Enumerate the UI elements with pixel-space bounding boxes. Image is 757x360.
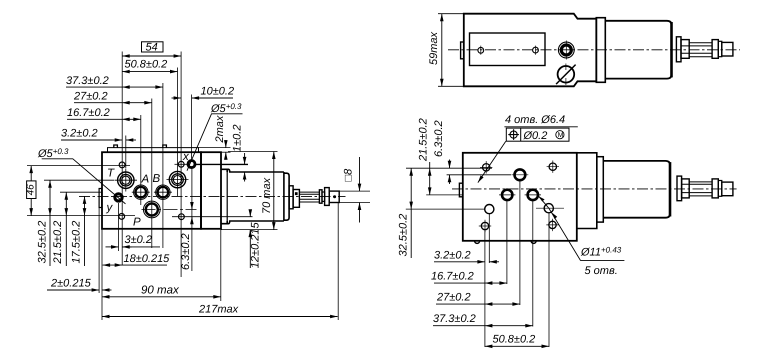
dimension 6.3±0.2 (bottom view, outside arrows)	[433, 120, 450, 184]
collar (bottom view)	[718, 181, 722, 197]
mounting flange of spring housing	[201, 152, 221, 229]
svg-text:27±0.2: 27±0.2	[436, 292, 471, 304]
dimension 2±0.215	[47, 278, 112, 291]
spring housing cylinder outline	[221, 169, 284, 223]
hex block pin (dark square)	[295, 192, 298, 195]
svg-text:50.8±0.2: 50.8±0.2	[493, 334, 536, 346]
dimension 217max	[102, 304, 338, 317]
extension column T x=125.8	[125, 136, 127, 169]
svg-text:Ø0.2: Ø0.2	[523, 130, 548, 142]
lock collar	[319, 190, 322, 203]
dimension square-8 (knob)	[339, 157, 370, 223]
hex flats	[682, 184, 690, 192]
svg-text:6.3±0.2: 6.3±0.2	[433, 120, 445, 157]
dimension 6.3±0.2	[180, 202, 192, 270]
threaded adjusting rod	[299, 192, 319, 202]
port x plug (dark ring, top view)	[561, 45, 571, 55]
adjuster hex (top view)	[681, 40, 689, 59]
square end knob	[329, 191, 339, 202]
dimension 3.2±0.2 (outside arrows)	[61, 128, 136, 140]
nut (bottom view)	[712, 179, 718, 198]
port labels	[106, 151, 191, 229]
screw crosshair dashes	[481, 46, 536, 55]
port T crosshair	[115, 169, 138, 192]
dimension 37.3±0.2	[66, 75, 163, 87]
svg-text:37.3±0.2: 37.3±0.2	[433, 313, 476, 325]
label Ø5+0.3 (left, port y)	[37, 147, 126, 204]
svg-text:90 max: 90 max	[141, 285, 180, 297]
small hole bottom-left	[119, 214, 125, 220]
left side tab	[461, 42, 464, 59]
svg-text:32.5±0.2: 32.5±0.2	[37, 221, 49, 264]
svg-text:3±0.2: 3±0.2	[125, 234, 152, 246]
hole T'	[485, 205, 494, 214]
port x (small dark ring)	[188, 161, 195, 168]
leader Ø11 through holes	[539, 196, 581, 260]
svg-text:3.2±0.2: 3.2±0.2	[434, 250, 471, 262]
lock nut (top view)	[712, 40, 718, 59]
adjuster washer	[289, 186, 293, 209]
bottom-right hole extension line	[172, 216, 253, 218]
knob center dot	[333, 195, 336, 198]
right band	[577, 153, 597, 229]
svg-text:17.5±0.2: 17.5±0.2	[71, 221, 83, 264]
rod (bottom view)	[689, 182, 712, 196]
cylinder end cap	[284, 173, 289, 220]
left side plate tab	[99, 189, 102, 208]
svg-text:46: 46	[26, 184, 37, 196]
extension column X2 x=177.6	[177, 68, 179, 197]
left side tab (bottom view)	[459, 183, 462, 197]
centerline (bottom view)	[452, 188, 737, 190]
svg-text:27±0.2: 27±0.2	[73, 91, 108, 103]
extension column A x=140.4	[140, 115, 142, 205]
dimension 17.5±0.2	[71, 196, 85, 266]
dimension 12±0.215	[250, 210, 262, 269]
small hole left of port x	[178, 161, 184, 167]
hole bottom-right	[549, 221, 556, 228]
leader to 6.4 hole	[478, 141, 506, 182]
port P (thick ring)	[146, 203, 158, 215]
main horizontal centerline	[79, 195, 346, 197]
dimension 27±0.2 (bottom view)	[436, 292, 520, 305]
dimension 32.5±0.2 (bottom view)	[398, 168, 412, 258]
svg-text:P: P	[133, 217, 141, 229]
port B crosshair	[154, 191, 172, 193]
top gasket plate	[108, 148, 199, 153]
gasket top extension line	[199, 147, 231, 149]
plug vertical dash	[565, 64, 567, 86]
dimension 16.7±0.2 (bottom view)	[431, 271, 507, 284]
svg-text:2max: 2max	[214, 115, 226, 143]
body (mounting face view)	[463, 153, 577, 241]
centerline (top view)	[448, 49, 740, 51]
flange right edge extension down	[220, 229, 222, 301]
hole top-left	[483, 164, 490, 171]
left row extension: A/B row y=191.4	[60, 191, 102, 193]
cylinder right end thick edge (bottom view)	[669, 162, 672, 216]
dimension 70 max	[221, 152, 278, 230]
plug crosshair	[565, 41, 567, 60]
lock nut	[325, 188, 330, 206]
svg-text:2±0.215: 2±0.215	[50, 278, 92, 290]
port T (double ring)	[118, 172, 134, 188]
leader arrowheads	[539, 196, 545, 201]
dimension 1±0.2	[232, 125, 245, 182]
port P crosshair	[142, 209, 197, 211]
extension column B x=162.6	[162, 83, 164, 248]
slotted screw plug (circle with slash)	[558, 66, 575, 83]
dimension 59max	[428, 14, 464, 87]
nameplate screw left	[478, 47, 484, 53]
svg-text:10±0.2: 10±0.2	[201, 86, 235, 98]
knob end extension down	[337, 203, 339, 321]
svg-text:T: T	[107, 168, 115, 180]
dimension 18±0.215	[103, 253, 171, 265]
GD&T frame	[506, 128, 569, 142]
svg-text:18±0.215: 18±0.215	[124, 253, 171, 265]
extension column P x=151.6	[151, 99, 153, 249]
dimension 2max (gasket)	[214, 115, 231, 160]
port B' thick ring	[528, 190, 538, 200]
port A' thick ring	[502, 190, 512, 200]
collar neck	[322, 192, 325, 201]
dimension 21.5±0.2	[52, 192, 66, 266]
dimension 16.7±0.2	[67, 107, 141, 119]
nameplate rectangle	[470, 33, 546, 66]
screw slot slash	[556, 65, 576, 85]
dimension 50.8±0.2 (bottom view)	[485, 334, 549, 347]
baseline row y=215.6	[27, 215, 135, 217]
extension line column x=122.2 (pattern ref)	[121, 52, 123, 266]
port A crosshair	[132, 191, 150, 193]
underline of label	[504, 126, 577, 128]
left row extensions (bottom view)	[406, 167, 492, 169]
square knob (top view)	[722, 42, 733, 56]
valve body block	[102, 152, 201, 229]
hole bottom-left	[481, 222, 488, 229]
port X2 double ring (upper right)	[169, 171, 185, 187]
hole x'	[544, 204, 553, 213]
column extensions below body	[484, 230, 486, 347]
svg-text:3.2±0.2: 3.2±0.2	[61, 128, 98, 140]
small hole top-left	[119, 162, 125, 168]
svg-text:5 отв.: 5 отв.	[585, 265, 618, 277]
adjuster washer (top view)	[676, 37, 681, 62]
svg-text:B: B	[153, 173, 161, 185]
left row extension: T row y=180.2	[44, 179, 114, 181]
svg-text:16.7±0.2: 16.7±0.2	[67, 107, 110, 119]
hex (bottom view)	[682, 179, 690, 198]
dimension 50.8±0.2	[122, 59, 177, 72]
port X2 crosshair	[167, 179, 189, 181]
adjuster hex block	[293, 190, 299, 208]
hex flats lines	[681, 46, 689, 53]
svg-text:M: M	[558, 132, 564, 139]
svg-text:70 max: 70 max	[261, 177, 273, 214]
position symbol	[510, 131, 517, 138]
dimension 54 (boxed)	[122, 42, 181, 57]
M circle modifier	[556, 131, 564, 139]
threaded rod (top view)	[689, 43, 712, 57]
locating pin bumps on bottom edge	[475, 241, 480, 244]
svg-text:217max: 217max	[198, 304, 239, 316]
svg-text:A: A	[141, 174, 150, 186]
dimension 27±0.2	[73, 91, 152, 103]
x-port channel line	[194, 163, 248, 165]
rear flange band 2	[597, 157, 604, 222]
svg-text:32.5±0.2: 32.5±0.2	[398, 214, 410, 257]
svg-text:□8: □8	[343, 168, 355, 182]
vertical line below x-port for 6.3 dim	[191, 168, 193, 271]
svg-text:54: 54	[146, 42, 158, 54]
extension line column x=181.1	[180, 52, 182, 278]
cylinder left seam line	[226, 172, 228, 221]
locating pin left on top face	[114, 145, 118, 148]
label Ø5+0.3 (top, port x)	[187, 102, 243, 171]
small hole bottom-right	[179, 214, 185, 220]
small hole crosshair	[175, 163, 188, 165]
spring housing cylinder (top view)	[605, 21, 671, 79]
svg-text:6.3±0.2: 6.3±0.2	[180, 233, 192, 270]
body outline with stepped right end	[464, 14, 597, 87]
cylinder right end thick edge	[670, 22, 673, 77]
svg-text:12±0.215: 12±0.215	[250, 222, 262, 269]
rear flange band	[596, 18, 605, 83]
nameplate screw right	[533, 47, 539, 53]
dimension 10±0.2 (outside arrows)	[172, 86, 235, 99]
svg-text:1±0.2: 1±0.2	[232, 125, 244, 152]
locating pin right on top face	[163, 145, 167, 148]
dimension 3±0.2 (y-port offset)	[106, 203, 161, 251]
dimension 90 max	[102, 285, 221, 297]
port y (small dark ring)	[115, 194, 122, 201]
svg-text:21.5±0.2: 21.5±0.2	[52, 221, 64, 265]
svg-text:21.5±0.2: 21.5±0.2	[417, 118, 429, 162]
port A (thick ring)	[136, 187, 147, 198]
svg-text:4 отв. Ø6.4: 4 отв. Ø6.4	[505, 114, 565, 126]
svg-text:50.8±0.2: 50.8±0.2	[125, 59, 168, 71]
lock collar (top view)	[718, 41, 722, 56]
left row extension: small hole row y=165.8	[27, 165, 130, 167]
cylinder (bottom view)	[603, 161, 670, 218]
dimension 3.2±0.2 (bottom view, outside arrows)	[434, 250, 499, 262]
svg-text:16.7±0.2: 16.7±0.2	[431, 271, 474, 283]
port P' thick ring	[515, 169, 526, 180]
dimension 46 (boxed, left)	[26, 166, 37, 216]
port B (thick ring)	[158, 187, 169, 198]
dimension 32.5±0.2	[37, 180, 51, 266]
plate-edge extension lines for dim 2	[98, 208, 100, 294]
washer (bottom view)	[677, 176, 682, 201]
hole top-right	[549, 163, 556, 170]
svg-text:37.3±0.2: 37.3±0.2	[66, 75, 109, 87]
svg-text:59max: 59max	[428, 31, 440, 65]
extension column x-port x=190.9	[191, 95, 193, 161]
dimension 21.5±0.2 (bottom view)	[417, 118, 429, 195]
knob (bottom view)	[722, 182, 733, 196]
dimension 37.3±0.2 (bottom view)	[433, 313, 533, 326]
